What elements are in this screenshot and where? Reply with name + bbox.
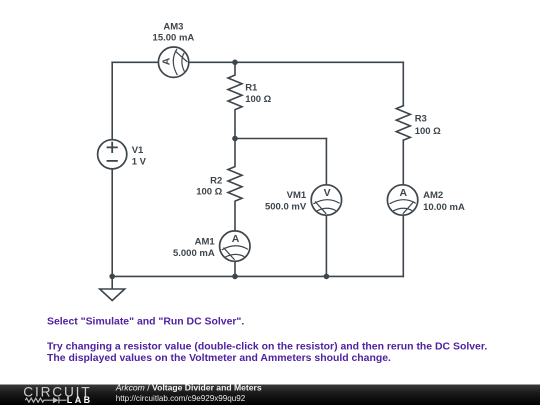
wire middle node horizontal bbox=[235, 138, 326, 140]
svg-text:AM1: AM1 bbox=[195, 236, 216, 247]
svg-text:10.00 mA: 10.00 mA bbox=[423, 202, 465, 213]
svg-text:The displayed values on the Vo: The displayed values on the Voltmeter an… bbox=[47, 353, 391, 364]
junction VM1 bottom bbox=[324, 274, 330, 280]
svg-text:VM1: VM1 bbox=[287, 190, 307, 201]
wire left branch bbox=[111, 62, 113, 276]
svg-text:100 Ω: 100 Ω bbox=[415, 126, 441, 137]
resistor R3 bbox=[396, 106, 410, 141]
logo resistor-diode glyph bbox=[25, 397, 66, 403]
resistor R1 bbox=[228, 62, 242, 138]
ammeter AM1 bbox=[220, 231, 250, 261]
junction node R1-R2 bbox=[232, 136, 238, 142]
junction AM1 bottom bbox=[232, 274, 238, 280]
svg-text:R2: R2 bbox=[210, 175, 222, 186]
junction node R1 top bbox=[232, 60, 238, 66]
voltage source V1 bbox=[98, 140, 127, 169]
svg-text:500.0 mV: 500.0 mV bbox=[265, 202, 307, 213]
svg-text:Try changing a resistor value: Try changing a resistor value (double-cl… bbox=[47, 342, 487, 353]
svg-text:15.00 mA: 15.00 mA bbox=[153, 33, 195, 44]
ammeter AM3 bbox=[158, 47, 188, 77]
wire top net bbox=[112, 61, 403, 63]
footer bar bbox=[0, 385, 540, 405]
svg-text:100 Ω: 100 Ω bbox=[245, 94, 271, 105]
wire voltmeter branch bbox=[325, 139, 327, 277]
wire bottom ground net bbox=[112, 275, 403, 277]
svg-text:A: A bbox=[161, 57, 173, 65]
wire right branch lower bbox=[402, 140, 404, 276]
wire right branch upper lead bbox=[402, 62, 404, 105]
svg-text:Select "Simulate" and "Run DC: Select "Simulate" and "Run DC Solver". bbox=[47, 317, 244, 328]
ground bbox=[100, 276, 125, 300]
resistor R2 bbox=[228, 139, 242, 277]
svg-text:1 V: 1 V bbox=[132, 156, 147, 167]
voltmeter VM1 bbox=[311, 185, 341, 215]
ammeter AM2 bbox=[387, 185, 417, 215]
svg-text:A: A bbox=[232, 233, 240, 245]
svg-text:100 Ω: 100 Ω bbox=[196, 187, 222, 198]
svg-text:R1: R1 bbox=[245, 83, 258, 94]
svg-text:AM3: AM3 bbox=[163, 22, 183, 33]
svg-text:http://circuitlab.com/c9e929x9: http://circuitlab.com/c9e929x99qu92 bbox=[116, 394, 246, 403]
svg-text:R3: R3 bbox=[415, 113, 427, 124]
svg-text:5.000 mA: 5.000 mA bbox=[173, 248, 215, 259]
svg-text:LAB: LAB bbox=[67, 395, 93, 405]
svg-text:Arkcom / Voltage Divider and M: Arkcom / Voltage Divider and Meters bbox=[115, 383, 262, 393]
svg-text:AM2: AM2 bbox=[423, 190, 443, 201]
svg-text:V1: V1 bbox=[132, 145, 144, 156]
junction ground left bbox=[109, 274, 115, 280]
svg-text:V: V bbox=[324, 187, 331, 199]
svg-text:A: A bbox=[400, 187, 408, 199]
